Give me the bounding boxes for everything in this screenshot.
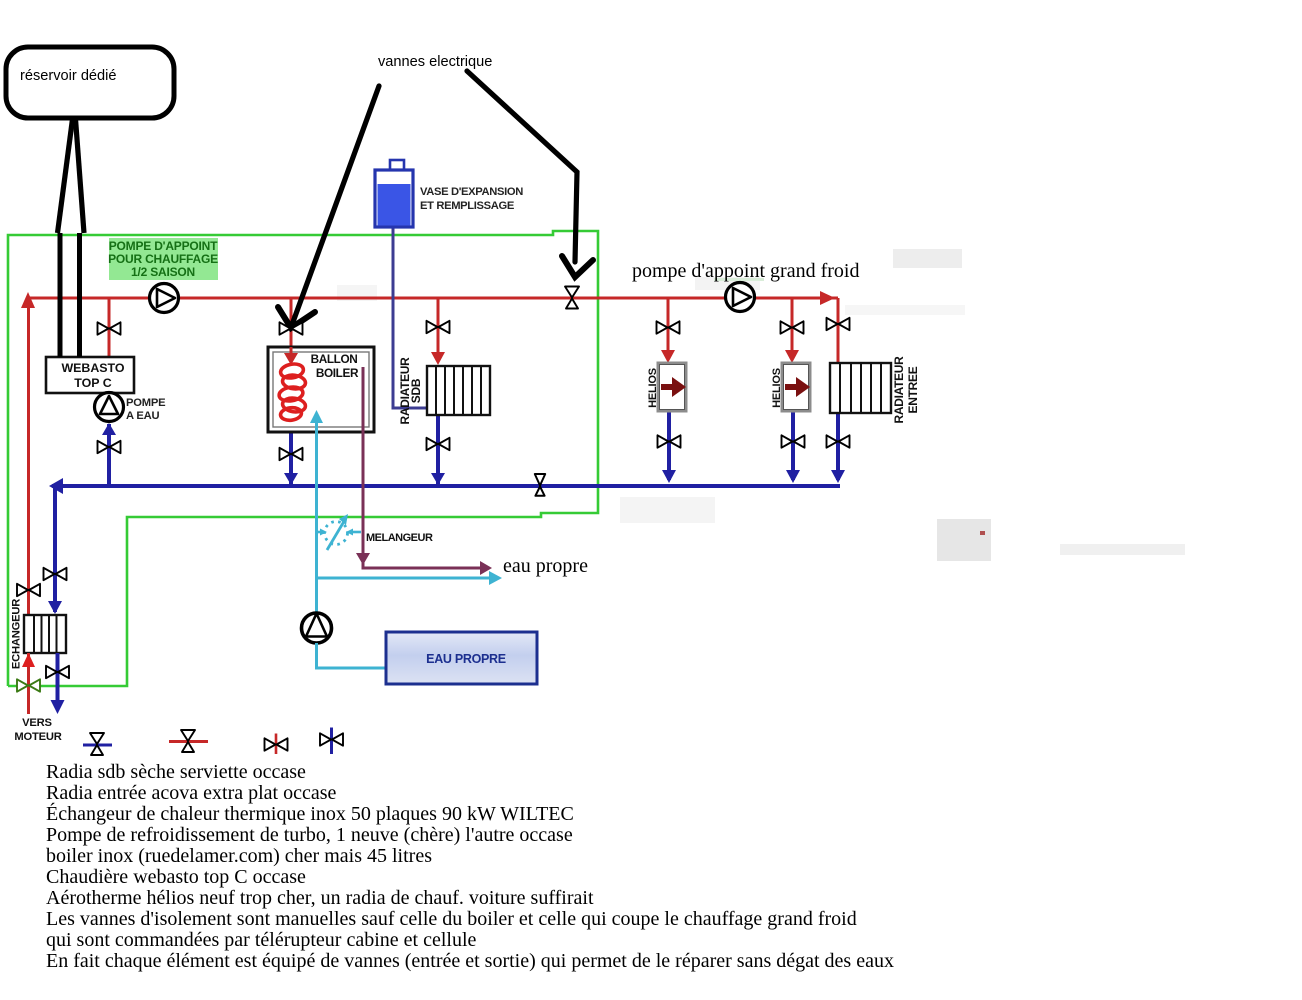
valve red echangeur riser — [17, 584, 40, 596]
arrow purple right eau propre — [480, 561, 492, 575]
wire blue echangeur feed drop — [53, 486, 57, 612]
valve blue radiateur entree return — [827, 435, 850, 447]
valve red radiateur entree branch — [827, 318, 850, 330]
reservoir funnel lines — [58, 119, 85, 233]
svg-text:Chaudière webasto top C occase: Chaudière webasto top C occase — [46, 866, 306, 888]
legend manual valve red — [265, 734, 288, 755]
notes text block — [46, 761, 894, 972]
wire cyan pump to eau propre tank — [317, 643, 387, 668]
valve red webasto branch — [98, 322, 121, 334]
valve red boiler branch (electric) — [280, 322, 303, 334]
heating coil in boiler — [278, 362, 306, 421]
SMUDGES — [337, 249, 1185, 561]
wire red left riser to echangeur — [27, 298, 30, 614]
wire blue radiateur sdb drop — [436, 415, 440, 484]
reservoir double drop pipes — [60, 233, 80, 357]
arrow red right on supply before corner — [820, 291, 835, 305]
svg-text:HELIOS: HELIOS — [771, 368, 783, 408]
wire blue helios2 drop — [791, 412, 795, 480]
green zone outline — [8, 231, 598, 686]
green highlight label POMPE D'APPOINT POUR CHAUFFAGE 1/2 SAISON — [108, 238, 218, 280]
svg-text:POMPE: POMPE — [126, 397, 166, 409]
svg-text:MOTEUR: MOTEUR — [14, 731, 61, 743]
svg-text:RADIATEUR: RADIATEUR — [892, 356, 906, 424]
svg-text:SDB: SDB — [409, 378, 423, 403]
svg-text:MELANGEUR: MELANGEUR — [366, 532, 433, 544]
arrow blue left at end of return — [49, 478, 63, 494]
helios2 box — [782, 363, 810, 411]
svg-text:A EAU: A EAU — [126, 410, 160, 422]
label radiateur sdb — [398, 357, 423, 425]
wire blue radiateur entree drop — [836, 413, 840, 480]
svg-text:VASE D'EXPANSION: VASE D'EXPANSION — [420, 186, 523, 198]
valve red helios2 branch — [781, 321, 804, 333]
webasto box — [46, 357, 134, 393]
svg-text:EAU PROPRE: EAU PROPRE — [426, 652, 506, 666]
arrow purple down at corner — [356, 553, 370, 565]
wire blue return main line — [52, 484, 840, 488]
arrow red into helios2 — [785, 350, 799, 363]
wire blue webasto pump drop — [107, 424, 111, 486]
arrow red into helios1 — [661, 350, 675, 363]
valve blue helios2 return — [782, 435, 805, 447]
black arrow 1 to boiler valve — [278, 86, 379, 328]
svg-text:Radia sdb sèche serviette occa: Radia sdb sèche serviette occase — [46, 761, 306, 783]
valve blue helios1 return — [658, 435, 681, 447]
svg-text:ET REMPLISSAGE: ET REMPLISSAGE — [420, 200, 515, 212]
label vers moteur — [14, 717, 61, 743]
svg-text:TOP C: TOP C — [74, 376, 111, 390]
electrovalve on red supply — [565, 287, 579, 309]
svg-text:Radia entrée acova extra plat: Radia entrée acova extra plat occase — [46, 782, 337, 804]
arrow blue down radiateur sdb — [431, 473, 445, 485]
svg-text:WEBASTO: WEBASTO — [61, 361, 124, 375]
arrow red up into echangeur bottom — [22, 653, 35, 667]
wire blue echangeur to motor — [56, 653, 60, 702]
valve blue echangeur outlet — [46, 666, 69, 678]
wire purple hot water out of boiler — [363, 367, 483, 568]
arrow red up at left end of supply — [21, 292, 35, 308]
wire red branch radiateur sdb — [437, 298, 440, 354]
ballon boiler box — [268, 347, 374, 432]
radiateur sdb box — [427, 366, 490, 415]
wire cyan from boiler to mixer and pump — [315, 414, 318, 614]
wire red branch helios1 — [667, 298, 670, 352]
arrow blue down boiler to return — [284, 473, 298, 485]
wire red branch helios2 — [791, 298, 794, 352]
svg-text:ENTREE: ENTREE — [906, 366, 920, 413]
arrow cyan right eau propre — [489, 571, 502, 585]
legend manual valve blue — [320, 728, 343, 755]
svg-text:HELIOS: HELIOS — [647, 368, 659, 408]
svg-text:eau propre: eau propre — [503, 555, 588, 577]
wire cyan branch eau propre — [317, 577, 493, 580]
valve blue echangeur feed — [44, 568, 67, 580]
arrow blue down radiateur entree — [831, 470, 845, 483]
arrow mixer slash tip — [339, 514, 348, 525]
svg-text:boiler inox (ruedelamer.com) c: boiler inox (ruedelamer.com) cher mais 4… — [46, 845, 432, 867]
echangeur box — [24, 615, 66, 653]
valve blue webasto return — [98, 441, 121, 453]
pump pompe d'appoint grand froid — [726, 283, 755, 312]
svg-text:VERS: VERS — [22, 717, 52, 729]
svg-text:Les vannes d'isolement sont ma: Les vannes d'isolement sont manuelles sa… — [46, 908, 857, 930]
pump eau propre — [302, 613, 332, 643]
svg-text:POMPE D'APPOINT: POMPE D'APPOINT — [109, 239, 218, 253]
wire blue helios1 drop — [667, 412, 671, 480]
valve green line at motor line — [17, 679, 40, 691]
label pompe a eau — [126, 397, 166, 422]
svg-text:Échangeur de chaleur thermique: Échangeur de chaleur thermique inox 50 p… — [46, 802, 574, 825]
svg-text:BALLON: BALLON — [311, 352, 358, 366]
valve red helios1 branch — [657, 321, 680, 333]
svg-text:1/2 SAISON: 1/2 SAISON — [131, 265, 195, 279]
arrow red into boiler coil — [284, 347, 298, 365]
wire red right riser radiateur entree — [837, 298, 840, 363]
svg-text:Aérotherme hélios neuf trop ch: Aérotherme hélios neuf trop cher, un rad… — [46, 887, 594, 909]
black arrow 2 to supply electrovalve — [467, 71, 593, 277]
pump pompe a eau — [95, 393, 124, 422]
wire red from motor up into echangeur — [27, 653, 30, 714]
wire red branch boiler — [290, 298, 293, 354]
valve blue boiler return — [280, 448, 303, 460]
pump pompe d'appoint (half-season) — [150, 284, 179, 313]
valve blue radiateur sdb return — [427, 438, 450, 450]
svg-text:réservoir dédié: réservoir dédié — [20, 68, 117, 84]
wire red branch webasto — [108, 298, 111, 357]
arrow blue up into pompe a eau — [102, 423, 116, 435]
vase d'expansion drop line to radiateur sdb — [393, 227, 428, 408]
helios1 box — [658, 363, 686, 411]
svg-text:qui sont commandées par téléru: qui sont commandées par télérupteur cabi… — [46, 929, 477, 951]
electrovalve on blue return — [535, 474, 545, 496]
arrow red into radiateur sdb — [431, 352, 445, 365]
radiateur entree box — [830, 363, 891, 413]
label radiateur entree — [892, 356, 920, 424]
arrow cyan up inside boiler — [310, 410, 323, 423]
svg-text:ECHANGEUR: ECHANGEUR — [11, 599, 23, 669]
svg-text:En fait chaque élément est équ: En fait chaque élément est équipé de van… — [46, 950, 894, 972]
svg-text:POUR CHAUFFAGE: POUR CHAUFFAGE — [108, 252, 218, 266]
arrow blue down helios2 — [786, 470, 800, 483]
arrow blue down helios1 — [662, 470, 676, 483]
wire red supply main line — [28, 297, 838, 300]
svg-text:Pompe de refroidissement de tu: Pompe de refroidissement de turbo, 1 neu… — [46, 824, 573, 846]
legend electrovalve blue — [83, 733, 112, 755]
wire blue boiler drop — [289, 419, 293, 484]
arrow blue down into echangeur — [48, 601, 62, 614]
eau propre tank box — [386, 632, 537, 684]
svg-text:pompe d'appoint grand froid: pompe d'appoint grand froid — [632, 260, 859, 282]
label vase d'expansion — [420, 186, 523, 212]
svg-text:BOILER: BOILER — [316, 366, 359, 380]
arrow blue down to motor — [51, 700, 65, 714]
legend electrovalve red — [169, 730, 208, 752]
vase d'expansion tank — [375, 160, 413, 227]
mixer melangeur dotted body — [317, 518, 362, 550]
valve red radiateur sdb branch — [427, 321, 450, 333]
svg-text:vannes electrique: vannes electrique — [378, 54, 492, 70]
reservoir dedie rounded box — [6, 47, 174, 118]
